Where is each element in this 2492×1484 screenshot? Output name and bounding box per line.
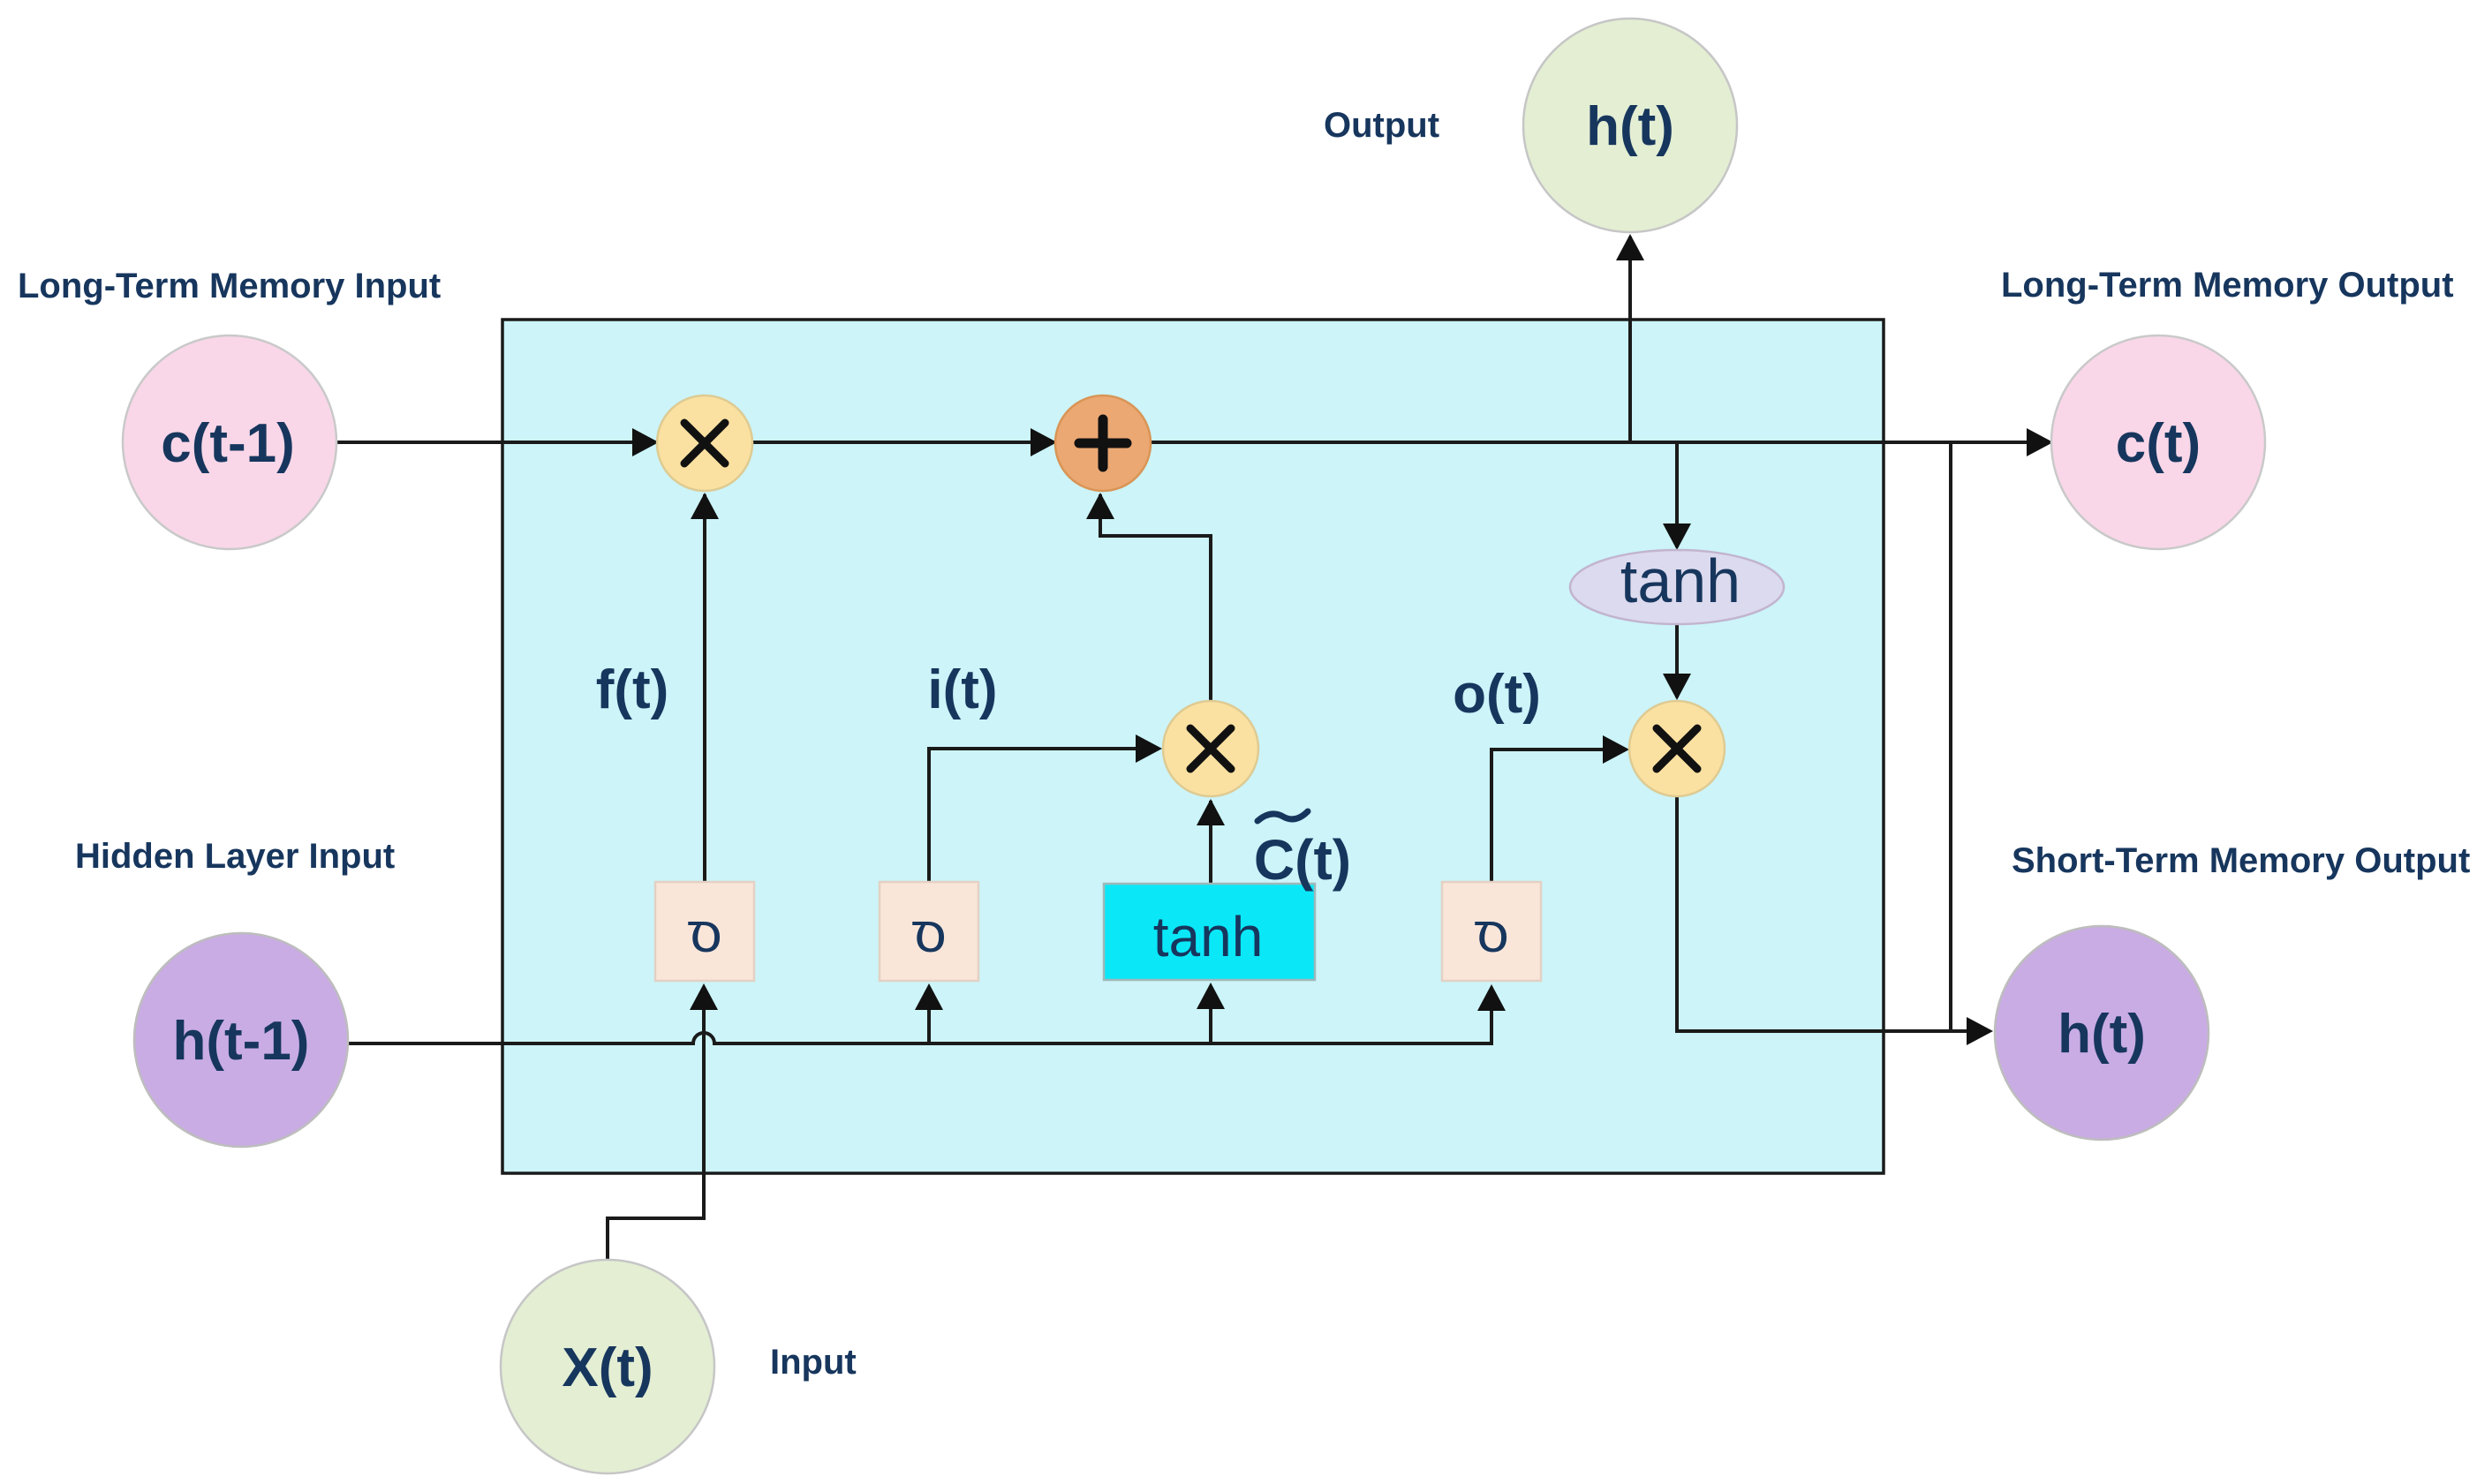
svg-text:h(t): h(t) (2058, 1004, 2146, 1065)
wire: up line to output h(t) (1628, 237, 1632, 442)
node arrow into forget multiply (632, 428, 659, 456)
sigma gate box 1 (forget) (655, 882, 754, 981)
wire: output multiply down and right to h(t) output (1677, 796, 1989, 1031)
svg-text:Long-Term Memory Output: Long-Term Memory Output (2001, 266, 2454, 305)
LSTM cell body (big cyan box) (502, 320, 1884, 1173)
wire: i riser sigma2 to input multiply (929, 749, 1159, 882)
node circle X(t) input (501, 1260, 714, 1473)
wire: arrow up into tanh box from h line (1209, 989, 1212, 1043)
svg-text:f(t): f(t) (596, 659, 669, 720)
wire: o riser sigma3 to output multiply (1491, 750, 1626, 881)
tanh candidate box (1104, 884, 1315, 980)
svg-text:o(t): o(t) (1453, 664, 1541, 725)
node circle h(t-1) (134, 933, 348, 1147)
svg-text:tanh: tanh (1153, 905, 1264, 968)
svg-text:Short-Term Memory Output: Short-Term Memory Output (2012, 841, 2470, 880)
node circle c(t-1) (123, 335, 336, 549)
svg-text:σ: σ (1474, 900, 1509, 964)
wire: f riser sigma1 to forget multiply (703, 494, 706, 882)
wire: zigzag from input multiply up into plus (1100, 494, 1211, 701)
wire: cell-state line c(t-1) to c(t) (336, 441, 2049, 444)
node circle c(t) (2051, 335, 2265, 549)
sigma gate box 2 (input) (880, 882, 978, 981)
svg-text:Hidden Layer Input: Hidden Layer Input (75, 837, 395, 876)
op circle: plus (1055, 395, 1151, 491)
sigma gate box 3 (output) (1442, 882, 1541, 981)
svg-text:σ: σ (911, 900, 947, 964)
wire: candidate riser tanh box to input multiply (1209, 801, 1212, 884)
svg-text:Output: Output (1324, 106, 1439, 145)
svg-text:X(t): X(t) (562, 1337, 653, 1398)
svg-text:σ: σ (687, 900, 722, 964)
svg-text:h(t): h(t) (1586, 96, 1674, 157)
wire: hidden state line h(t-1) with hop over X riser (347, 991, 1491, 1043)
svg-text:Long-Term Memory Input: Long-Term Memory Input (18, 267, 441, 305)
svg-text:C(t): C(t) (1254, 828, 1351, 892)
node circle h(t) top output (1523, 19, 1737, 232)
svg-text:tanh: tanh (1620, 546, 1741, 615)
op circle: output multiply (1629, 701, 1725, 796)
wire: outer vertical from c line down to h out line (1949, 444, 1952, 1031)
svg-text:Input: Input (770, 1343, 857, 1382)
svg-text:c(t): c(t) (2116, 413, 2201, 474)
node circle h(t) right output (1995, 926, 2209, 1140)
node arrow into c(t) (2027, 428, 2053, 456)
wire: tanh ellipse down to output multiply (1675, 624, 1679, 697)
node arrow into plus (1031, 428, 1057, 456)
svg-text:h(t-1): h(t-1) (173, 1011, 310, 1072)
op circle: input multiply (1163, 701, 1258, 796)
svg-text:i(t): i(t) (927, 659, 997, 720)
svg-text:c(t-1): c(t-1) (161, 413, 295, 474)
wire: arrow up into sigma2 from h line (927, 991, 931, 1043)
op circle: forget multiply (657, 395, 752, 491)
wire: X(t) riser up into sigma1 (608, 991, 704, 1260)
tanh ellipse (1570, 550, 1784, 624)
wire: branch down to tanh ellipse (1675, 442, 1679, 547)
